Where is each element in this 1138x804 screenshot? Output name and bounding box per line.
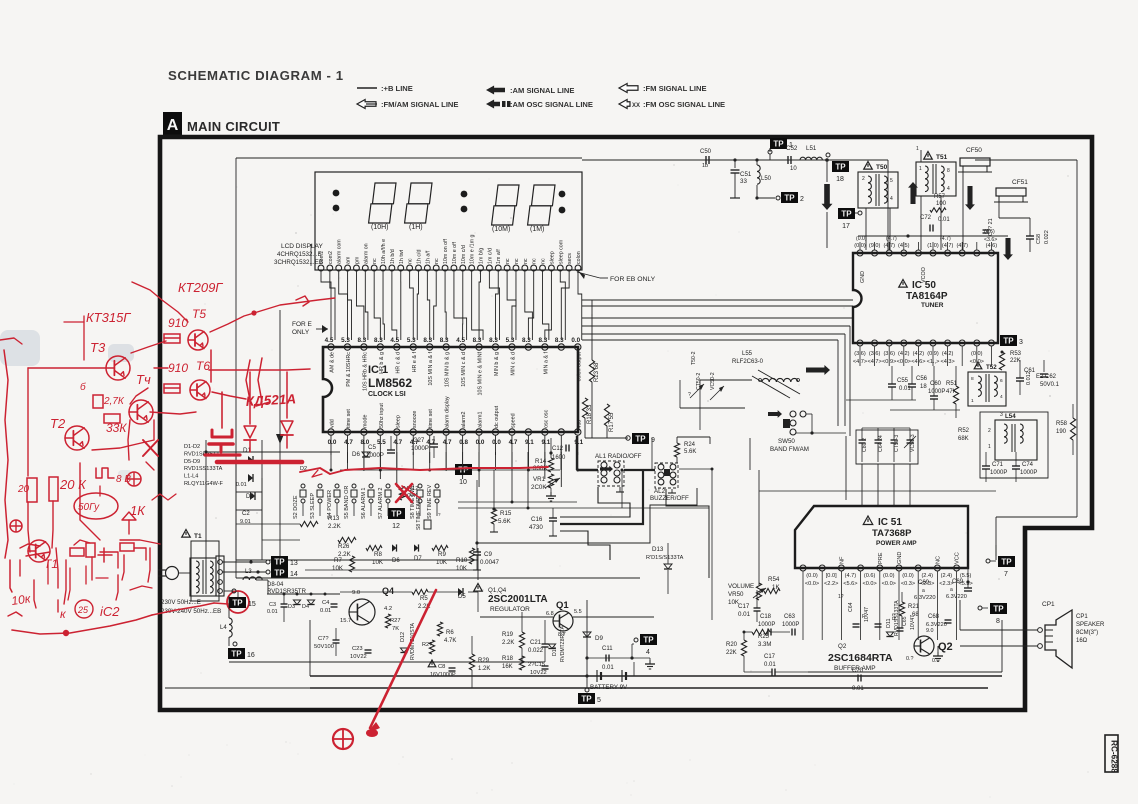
svg-text:1000P: 1000P (1020, 470, 1037, 476)
svg-text:330K: 330K (533, 465, 548, 472)
svg-text:0.0: 0.0 (328, 439, 337, 446)
svg-text:Q2: Q2 (838, 643, 847, 650)
svg-text:(0.0): (0.0) (902, 573, 914, 579)
svg-text:R54: R54 (768, 576, 780, 583)
svg-text:2SC1684RTA: 2SC1684RTA (828, 652, 893, 664)
svg-text:Т6: Т6 (196, 359, 210, 373)
svg-text:FOR E: FOR E (292, 321, 313, 328)
svg-text:5.6K: 5.6K (498, 518, 512, 525)
svg-text:10K: 10K (456, 565, 468, 572)
svg-text:8: 8 (947, 168, 950, 174)
svg-text:REGULATOR: REGULATOR (490, 606, 530, 613)
svg-text:1600: 1600 (552, 455, 566, 461)
svg-text:POWER AMP: POWER AMP (876, 540, 917, 547)
svg-text:T1: T1 (194, 533, 202, 540)
svg-text:R6: R6 (446, 630, 454, 636)
svg-text:R9: R9 (438, 551, 446, 558)
svg-text:PM & 10SHRc: PM & 10SHRc (346, 352, 352, 387)
svg-text:sleep com: sleep com (558, 239, 564, 264)
svg-text:910: 910 (168, 361, 188, 375)
svg-text:6.3V220: 6.3V220 (946, 594, 967, 600)
svg-text:a: a (922, 588, 925, 594)
svg-text:0.0: 0.0 (571, 337, 580, 344)
svg-text:C51: C51 (740, 171, 752, 178)
svg-text:IC 51: IC 51 (878, 517, 902, 528)
svg-text:NC: NC (935, 556, 941, 564)
svg-text:8.3: 8.3 (555, 337, 564, 344)
svg-text:R27: R27 (390, 618, 401, 624)
svg-text:14: 14 (290, 571, 298, 578)
svg-text:ONLY: ONLY (292, 329, 310, 336)
svg-text:25: 25 (77, 605, 89, 615)
svg-text:5.3: 5.3 (407, 337, 416, 344)
svg-text:[0.0]: [0.0] (826, 573, 837, 579)
svg-text:18: 18 (920, 384, 927, 390)
svg-text:vdd: vdd (330, 419, 336, 428)
svg-text:C17: C17 (764, 654, 776, 660)
svg-text:nc: nc (541, 258, 547, 264)
svg-text:C8: C8 (438, 664, 445, 670)
svg-text:10к: 10к (10, 591, 32, 608)
svg-text:osc osc: osc osc (543, 409, 549, 428)
svg-text:nc: nc (523, 258, 529, 264)
svg-text:HR e & f: HR e & f (412, 352, 418, 373)
svg-text:GND: GND (897, 552, 903, 564)
svg-text:4: 4 (1000, 394, 1003, 400)
svg-text:4.7: 4.7 (509, 439, 518, 446)
svg-text:CF50: CF50 (966, 147, 982, 154)
svg-text:C11: C11 (602, 646, 613, 652)
svg-text:CP1: CP1 (1042, 601, 1055, 608)
svg-text:9.1: 9.1 (541, 439, 550, 446)
svg-text:vss: vss (576, 420, 582, 428)
svg-text:1.2K: 1.2K (478, 666, 490, 672)
svg-text:<0.0>: <0.0> (862, 581, 876, 587)
svg-text:5.5: 5.5 (377, 439, 386, 446)
svg-text:2SC2001LTA: 2SC2001LTA (488, 594, 548, 605)
svg-text:2: 2 (862, 176, 865, 182)
svg-text:C58: C58 (1036, 234, 1042, 244)
svg-text:Q1,Q4: Q1,Q4 (488, 587, 507, 594)
svg-text:8: 8 (971, 376, 974, 382)
svg-text:am: am (346, 256, 352, 264)
svg-text:TP: TP (993, 605, 1004, 614)
svg-text:colon output: colon output (576, 352, 582, 382)
svg-text:0.01: 0.01 (602, 665, 614, 671)
svg-text:2,7К: 2,7К (103, 396, 125, 407)
svg-text:1h b/d: 1h b/d (390, 249, 396, 264)
svg-text:C52: C52 (786, 145, 798, 152)
svg-text:TP: TP (231, 650, 242, 659)
svg-text:AL2: AL2 (654, 488, 666, 495)
svg-text:5: 5 (597, 697, 601, 704)
svg-text:50V100: 50V100 (314, 644, 334, 650)
svg-text:8.3: 8.3 (440, 337, 449, 344)
svg-text:15: 15 (248, 601, 256, 608)
svg-text:R14: R14 (535, 458, 547, 465)
svg-text:TP: TP (841, 210, 852, 219)
svg-text:TP: TP (784, 194, 795, 203)
svg-text:L1-L4: L1-L4 (184, 474, 198, 480)
svg-text:D1-D2: D1-D2 (184, 444, 200, 450)
svg-text:4.5: 4.5 (325, 337, 334, 344)
svg-text:C55: C55 (897, 378, 909, 384)
svg-text:D6: D6 (392, 558, 400, 564)
svg-text:1: 1 (919, 166, 922, 172)
svg-text:(2.4): (2.4) (921, 573, 933, 579)
svg-text:8CM(3"): 8CM(3") (1076, 630, 1098, 636)
svg-text:0.022: 0.022 (1044, 230, 1050, 244)
svg-text:(4.6): (4.6) (984, 229, 995, 235)
svg-text:1000P: 1000P (782, 622, 799, 628)
svg-text:S7 ALARM 2: S7 ALARM 2 (378, 488, 384, 520)
svg-text:910: 910 (168, 316, 188, 330)
svg-text:33: 33 (740, 178, 747, 185)
svg-text:secs: secs (567, 253, 573, 264)
svg-text:16Ω: 16Ω (1076, 638, 1088, 644)
svg-text:10S MIN c & d: 10S MIN c & d (461, 352, 467, 387)
svg-text:4CHRQ1532...E: 4CHRQ1532...E (277, 251, 322, 258)
svg-text:8: 8 (996, 618, 1000, 625)
svg-text:Т3: Т3 (90, 340, 106, 355)
svg-text:speed: speed (510, 413, 516, 428)
svg-text:D5-D9: D5-D9 (184, 459, 200, 465)
svg-text:5: 5 (890, 178, 893, 184)
svg-text:4: 4 (947, 186, 950, 192)
svg-text:1m b/g: 1m b/g (479, 248, 485, 264)
svg-text:C5: C5 (368, 444, 376, 451)
svg-text:C27: C27 (413, 437, 425, 444)
svg-text:50hz input: 50hz input (379, 403, 385, 428)
svg-text:TP: TP (391, 510, 402, 519)
svg-text:8.3: 8.3 (423, 337, 432, 344)
svg-text:5.5: 5.5 (574, 609, 582, 615)
svg-text:8.3: 8.3 (538, 337, 547, 344)
svg-text:10K: 10K (332, 565, 344, 572)
svg-text:1: 1 (988, 444, 991, 450)
svg-text:2.2K: 2.2K (502, 640, 514, 646)
svg-text:10V22: 10V22 (530, 670, 547, 676)
svg-text:RLF2C63-0: RLF2C63-0 (732, 359, 764, 365)
svg-text:T50: T50 (876, 164, 888, 171)
svg-text:CF51: CF51 (1012, 179, 1028, 186)
svg-text:9.1: 9.1 (525, 439, 534, 446)
svg-text:1000P: 1000P (928, 389, 945, 395)
svg-text:2.2K: 2.2K (328, 523, 342, 530)
svg-text:RVD1SS133TA: RVD1SS133TA (184, 466, 223, 472)
svg-text:(4.7): (4.7) (886, 236, 897, 242)
svg-text:C4: C4 (322, 600, 330, 606)
svg-text:AL1 RADIO/OFF: AL1 RADIO/OFF (595, 453, 642, 460)
svg-text:1K: 1K (772, 584, 780, 591)
svg-text:5.3: 5.3 (341, 337, 350, 344)
svg-text:(10H): (10H) (371, 224, 389, 231)
svg-text:VR50: VR50 (728, 591, 744, 598)
svg-text:1?: 1? (838, 594, 844, 600)
svg-text:4.2: 4.2 (384, 606, 392, 612)
svg-text:6.8: 6.8 (546, 611, 554, 617)
svg-text:MIN a & f: MIN a & f (543, 352, 549, 375)
svg-text:L3: L3 (245, 569, 252, 575)
svg-text:10V22: 10V22 (350, 654, 367, 660)
svg-text:68K: 68K (958, 436, 969, 442)
svg-text:VC50-2: VC50-2 (710, 372, 716, 390)
svg-text:TP: TP (643, 636, 654, 645)
svg-text:D11: D11 (886, 619, 892, 629)
svg-text:C12: C12 (552, 446, 564, 452)
svg-text:10S MIN a & f: 10S MIN a & f (428, 352, 434, 386)
svg-text:C64: C64 (848, 602, 854, 612)
svg-text:б: б (80, 381, 86, 393)
svg-text:1000P: 1000P (411, 445, 429, 452)
svg-text:(2.4): (2.4) (941, 573, 953, 579)
svg-text:12: 12 (392, 523, 400, 530)
svg-text:8.3: 8.3 (522, 337, 531, 344)
svg-text:4: 4 (646, 649, 650, 656)
svg-text:C69: C69 (952, 579, 964, 585)
svg-text:68: 68 (912, 612, 919, 618)
svg-text:50Гу: 50Гу (78, 502, 100, 513)
svg-text:R23 68: R23 68 (594, 362, 600, 382)
svg-text:(0.0): (0.0) (806, 573, 818, 579)
svg-text:4.5: 4.5 (456, 337, 465, 344)
svg-text:(0.0): (0.0) (883, 573, 895, 579)
svg-text:0.01: 0.01 (267, 609, 278, 615)
svg-text:MIN b & g: MIN b & g (494, 352, 500, 376)
svg-text::FM OSC SIGNAL LINE: :FM OSC SIGNAL LINE (643, 100, 725, 109)
svg-text:1: 1 (971, 398, 974, 404)
svg-text:R53: R53 (1010, 351, 1022, 357)
svg-text:4.7K: 4.7K (444, 638, 456, 644)
svg-text:snooze: snooze (412, 411, 418, 428)
svg-text:1: 1 (916, 146, 919, 152)
svg-text:R21: R21 (908, 604, 920, 610)
svg-text:nc: nc (408, 258, 414, 264)
svg-text:R10: R10 (456, 557, 468, 564)
svg-text:R29: R29 (478, 658, 490, 664)
svg-text:RC-6288: RC-6288 (1110, 740, 1119, 773)
svg-text:S3 SLEEP: S3 SLEEP (310, 493, 316, 519)
svg-text:VOLUME: VOLUME (728, 583, 754, 590)
svg-text:4.7: 4.7 (344, 439, 353, 446)
svg-text:Тч: Тч (136, 372, 151, 387)
svg-text:КД521А: КД521А (245, 391, 296, 409)
svg-text:pm: pm (354, 256, 360, 264)
svg-text:1m c/d: 1m c/d (487, 248, 493, 264)
svg-text:R52: R52 (958, 428, 970, 434)
svg-text:16: 16 (247, 652, 255, 659)
svg-text:C71: C71 (992, 462, 1004, 468)
svg-text:4.7: 4.7 (393, 439, 402, 446)
svg-text:10S MIN e & MINf: 10S MIN e & MINf (478, 351, 484, 395)
svg-text:LM8562: LM8562 (368, 376, 412, 390)
svg-text:10h a/f/h e: 10h a/f/h e (381, 239, 387, 264)
svg-text:alarm on: alarm on (363, 243, 369, 264)
svg-text:10m c/d: 10m c/d (461, 245, 467, 264)
svg-text:R8: R8 (374, 551, 382, 558)
svg-text:17: 17 (842, 223, 850, 230)
svg-text:C68: C68 (928, 614, 940, 620)
svg-text:VR1: VR1 (533, 476, 546, 483)
svg-text:0.01: 0.01 (938, 217, 950, 223)
svg-text:3: 3 (1019, 339, 1023, 346)
svg-text:0.022: 0.022 (528, 648, 544, 654)
svg-text:2: 2 (988, 428, 991, 434)
svg-text:alarm display: alarm display (445, 396, 451, 428)
svg-text:R18 33: R18 33 (587, 404, 593, 424)
svg-text:R13: R13 (328, 515, 340, 522)
svg-text:(4.7): (4.7) (845, 573, 857, 579)
svg-text:sleep: sleep (395, 415, 401, 428)
svg-text:nc: nc (532, 258, 538, 264)
svg-text:0.0: 0.0 (476, 439, 485, 446)
svg-text:C21: C21 (530, 640, 542, 646)
svg-text:(0.6): (0.6) (864, 573, 876, 579)
svg-text:<2.2>: <2.2> (824, 581, 838, 587)
svg-text:0.01: 0.01 (852, 686, 864, 692)
svg-text:S2 DOZE: S2 DOZE (293, 495, 299, 519)
svg-text:0.01: 0.01 (236, 482, 247, 488)
svg-text:time set: time set (346, 409, 352, 428)
svg-text:nc: nc (434, 258, 440, 264)
svg-text:50V0.1: 50V0.1 (1040, 382, 1060, 388)
svg-text:10m on off: 10m on off (443, 239, 449, 264)
svg-text:CP1: CP1 (1076, 614, 1088, 620)
svg-text:FOR EB ONLY: FOR EB ONLY (610, 276, 656, 283)
svg-text:R18: R18 (502, 656, 514, 662)
svg-text:10m e /1m g: 10m e /1m g (470, 235, 476, 264)
svg-text:L51: L51 (806, 145, 817, 152)
svg-text:<0.0>: <0.0> (805, 581, 819, 587)
svg-text:R20: R20 (726, 642, 738, 648)
svg-text:com1: com1 (319, 251, 325, 264)
svg-text:1h a/f: 1h a/f (425, 250, 431, 264)
svg-text:15.7: 15.7 (340, 618, 351, 624)
svg-text:VCC: VCC (955, 552, 961, 564)
svg-text:TUNER: TUNER (921, 302, 944, 309)
svg-text:TP: TP (835, 163, 846, 172)
svg-text:TP: TP (274, 569, 285, 578)
svg-text:R17 55: R17 55 (609, 412, 615, 432)
svg-text:colon: colon (576, 251, 582, 264)
svg-text:SPEAKER: SPEAKER (1076, 622, 1105, 628)
svg-text:BATTERY 9V: BATTERY 9V (590, 684, 628, 691)
svg-text:190: 190 (1056, 429, 1067, 435)
svg-text:1000P: 1000P (758, 622, 775, 628)
svg-text:20 К: 20 К (59, 477, 87, 492)
svg-text:10S MIN b & g: 10S MIN b & g (445, 352, 451, 387)
svg-text:sleep: sleep (549, 251, 555, 264)
svg-text:5.6K: 5.6K (684, 449, 696, 455)
svg-text:R58: R58 (1056, 421, 1068, 427)
svg-text:TA8164P: TA8164P (906, 291, 948, 302)
svg-text:TP: TP (635, 435, 646, 444)
svg-text:C2: C2 (242, 511, 250, 517)
svg-text:2: 2 (800, 196, 804, 203)
svg-text:TP: TP (581, 695, 592, 704)
svg-text:8.3: 8.3 (358, 337, 367, 344)
svg-text:8.3: 8.3 (489, 337, 498, 344)
svg-text:T51: T51 (936, 154, 948, 161)
svg-text:9.0: 9.0 (352, 590, 360, 596)
svg-text:18: 18 (836, 176, 844, 183)
svg-text:BAND FM/AM: BAND FM/AM (770, 446, 809, 453)
svg-text:C17: C17 (738, 603, 750, 610)
svg-text:HR b & g: HR b & g (379, 352, 385, 374)
svg-text:КТ209Г: КТ209Г (178, 280, 223, 295)
svg-text:8.3: 8.3 (374, 337, 383, 344)
svg-text:XX: XX (632, 103, 640, 109)
svg-text:1h c/d: 1h c/d (416, 250, 422, 264)
svg-text:(1H): (1H) (409, 224, 423, 231)
svg-text:HR c & d: HR c & d (395, 352, 401, 374)
svg-text:0.01: 0.01 (320, 608, 331, 614)
svg-text:R'D1S/S133TA: R'D1S/S133TA (646, 555, 684, 561)
svg-text:C74: C74 (1022, 462, 1034, 468)
svg-text:VCOO: VCOO (921, 267, 927, 283)
svg-text:D8-04: D8-04 (267, 582, 284, 588)
svg-text:RLQY11G4W-F: RLQY11G4W-F (184, 481, 224, 487)
svg-text:<0.0>: <0.0> (882, 581, 896, 587)
svg-text:R15: R15 (500, 510, 512, 517)
svg-text:CLOCK LSI: CLOCK LSI (368, 391, 406, 398)
svg-text:GND: GND (860, 271, 866, 283)
svg-text:TP: TP (232, 599, 243, 608)
svg-text:R7: R7 (334, 557, 342, 564)
svg-text:SCHEMATIC DIAGRAM - 1: SCHEMATIC DIAGRAM - 1 (168, 68, 344, 83)
svg-text:S5 BAND OR: S5 BAND OR (344, 486, 350, 519)
svg-text:R26: R26 (338, 543, 350, 550)
svg-text:22K: 22K (726, 650, 737, 656)
svg-text:2C0K: 2C0K (531, 484, 547, 491)
svg-text:NF: NF (839, 556, 845, 564)
svg-text:S8 TIME FAST: S8 TIME FAST (416, 497, 422, 530)
svg-text:16K: 16K (502, 664, 513, 670)
svg-text:R24: R24 (684, 442, 696, 448)
svg-text:C3: C3 (269, 602, 276, 608)
svg-text:dc output: dc output (494, 405, 500, 428)
svg-text:TP: TP (1001, 558, 1012, 567)
svg-text:(0.0): (0.0) (856, 236, 867, 242)
svg-text:A: A (167, 117, 179, 134)
svg-text:LCD DISPLAY: LCD DISPLAY (281, 243, 323, 250)
svg-text:C60: C60 (930, 381, 942, 387)
svg-text:13: 13 (290, 560, 298, 567)
svg-text:0.0047: 0.0047 (480, 559, 499, 566)
svg-text:L50: L50 (761, 176, 772, 182)
svg-text:D9: D9 (595, 635, 603, 642)
svg-text:TP: TP (773, 140, 784, 149)
svg-text:<0.3>: <0.3> (901, 581, 915, 587)
svg-text:R57: R57 (934, 194, 946, 200)
svg-text:0.01: 0.01 (764, 662, 776, 668)
svg-text:BUZZER/OFF: BUZZER/OFF (650, 495, 689, 502)
svg-text::FM SIGNAL LINE: :FM SIGNAL LINE (643, 84, 707, 93)
svg-text:D6: D6 (352, 451, 360, 458)
svg-text:0.0: 0.0 (492, 439, 501, 446)
svg-text:alarm2: alarm2 (461, 412, 467, 428)
svg-text:S6 ALARM 1: S6 ALARM 1 (361, 488, 367, 520)
svg-text:6: 6 (1000, 378, 1003, 384)
svg-text:nc: nc (514, 258, 520, 264)
svg-text:SW50: SW50 (778, 438, 795, 445)
svg-text:3: 3 (1000, 412, 1003, 418)
svg-text:3.3M: 3.3M (758, 642, 771, 648)
svg-text:(10M): (10M) (492, 226, 510, 233)
svg-text:PRE: PRE (878, 552, 884, 564)
svg-text:0.01: 0.01 (738, 611, 751, 618)
svg-text:D7: D7 (414, 556, 422, 562)
